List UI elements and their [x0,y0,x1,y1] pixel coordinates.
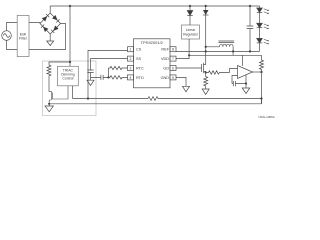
wire CS pin 1 [88,50,128,98]
svg-text:Control: Control [62,77,73,81]
wire output down to rail [261,72,263,104]
pin 7 box [170,56,176,61]
svg-text:GND: GND [161,76,170,80]
wire SS pin 2 [91,59,128,70]
resistor R2 feedback [148,97,158,101]
wire REF pin 8 to LED return [176,50,260,52]
transistor Q1 [49,91,52,104]
node ref-linreg [188,54,190,56]
diode D6 freewheel [203,10,209,15]
svg-text:1: 1 [130,48,132,52]
IC U1 TPS92001/2 [134,39,171,88]
pin 2 box [128,56,134,61]
node ref-drain riser [205,50,207,52]
wire EMI to bridge left vertex [29,22,40,25]
svg-text:7: 7 [172,57,174,61]
wire EMI bottom to bridge right vertex [29,24,66,50]
wire top rail [50,5,259,7]
svg-text:2: 2 [130,57,132,61]
wire op-amp output [253,71,262,73]
node riser-inductor [205,46,207,48]
pin 8 box [170,47,176,52]
resistor R1 bleeder [47,65,51,79]
node RT join [107,76,109,78]
ground sense [202,89,209,95]
resistor R4 RTD [109,76,128,79]
svg-text:Filter: Filter [19,37,28,41]
wire GND pin 5 [176,77,186,86]
wire VDD pin 7 [176,55,262,58]
ground op-amp [242,88,250,94]
capacitor C3 output [247,6,254,51]
bridge rectifier diamond [40,13,61,34]
LED D8 [257,23,269,38]
wire rail to triac box [69,6,71,66]
wire to bleeder resistor [49,62,70,65]
LED D9 [257,38,269,51]
diode D5 linreg input [187,11,193,16]
svg-text:TPS92001/2: TPS92001/2 [141,40,164,45]
node rail-freewheel [205,5,207,7]
node Q1 source [48,103,50,105]
svg-text:8: 8 [172,48,174,52]
ground dimmer [45,104,53,112]
LED D7 [257,8,269,23]
node dimmer branch [69,61,71,63]
svg-text:VDD: VDD [161,57,169,61]
svg-text:RTC: RTC [136,66,144,70]
wire GD pin 6 to gate [176,67,202,69]
EMI filter block [17,16,29,57]
wire op-amp supply [242,55,244,66]
bridge diode D4 [41,25,49,33]
node cap-gnd [245,82,247,84]
ground SS [87,80,94,85]
label triac dimming control [61,69,74,81]
wire resistor to Q1 drain [48,79,50,92]
inductor L1 [219,41,235,47]
op-amp U2 [238,66,253,79]
node feedback-output [260,97,262,99]
ground bridge [47,34,54,46]
svg-text:REF: REF [161,48,169,52]
svg-text:Regulator: Regulator [183,32,199,36]
label linear regulator [183,28,199,37]
wire bridge top to rail [49,6,51,13]
mosfet Q2 [202,63,206,74]
node rail-dimmer [69,5,71,7]
resistor R6 to op-amp [206,71,230,74]
wire ac bottom to EMI filter [7,40,18,49]
wire rail to linreg input [189,6,191,25]
svg-text:4: 4 [130,76,132,80]
bridge diode D2 [52,15,60,23]
svg-text:3: 3 [130,67,132,71]
svg-text:SS: SS [136,57,142,61]
node Q2 source [205,71,207,73]
svg-text:6: 6 [172,67,174,71]
wire linreg output riser [188,39,190,55]
pin 6 box [170,66,176,71]
ac source V1 [2,31,12,41]
node rail-cout [249,5,251,7]
wire cap to ground [245,75,247,88]
svg-text:Linear: Linear [186,28,196,32]
wire rail to LED string [259,6,261,8]
capacitor C2 timing [91,75,109,80]
bridge diode D1 [42,14,50,22]
label EMI filter [19,33,28,41]
node feedback-CS [87,97,89,99]
wire Q1 gate from triac box [52,86,68,99]
pin 3 box [128,66,134,71]
pin 4 box [128,75,134,80]
triac dimming control block [58,66,79,86]
wire to inverting input [230,69,238,73]
node rail-linreg [189,5,191,7]
wire RT join [108,68,110,77]
linear regulator block [182,25,200,39]
ground IC [183,86,190,92]
wire bottom return rail [49,99,261,104]
pin 1 box [128,47,134,52]
wire ac top to EMI filter [7,23,18,31]
wire drain riser with freewheel diode [206,6,220,65]
node ref-inductor riser [232,50,234,52]
wire non-inverting input [232,76,238,84]
pin 5 box [170,75,176,80]
svg-text:GD: GD [163,66,169,70]
resistor R3 RTC [109,66,128,69]
wire inductor right riser [232,47,234,56]
wire triac box to feedback line [72,86,74,99]
svg-text:UDG-10064: UDG-10064 [258,115,274,119]
svg-text:RTD: RTD [136,76,144,80]
resistor R5 sense [204,73,208,90]
wire feedback line [73,98,262,100]
node output [260,71,262,73]
wire C1 to ground [90,73,92,81]
capacitor C1 soft-start [87,70,93,73]
capacitor C4 comp [232,81,246,86]
resistor R7 feedback top [260,55,264,72]
bridge diode D3 [51,26,59,34]
dimmer section enclosure [43,61,97,116]
node ref-cout [249,50,251,52]
svg-text:5: 5 [172,76,174,80]
svg-text:CS: CS [136,48,142,52]
